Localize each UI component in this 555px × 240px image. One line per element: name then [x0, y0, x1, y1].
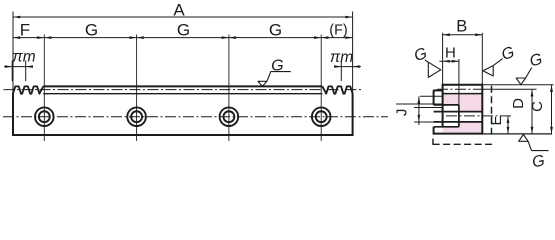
surface-flag G3 leader	[526, 68, 532, 79]
dimension H line	[439, 60, 459, 62]
wire rack-left-edge	[12, 93, 14, 136]
dimension pi-m-left line	[4, 66, 33, 68]
dimension J line	[418, 96, 420, 125]
wire body top edge	[442, 84, 483, 86]
surface-flag G1 leader	[425, 60, 429, 62]
svg-text:G: G	[271, 58, 283, 75]
svg-text:G: G	[177, 21, 190, 40]
dimension E line	[507, 116, 509, 134]
hole H2 bore	[131, 111, 142, 122]
hole H3 centreline	[228, 35, 230, 142]
svg-text:E: E	[488, 115, 505, 125]
svg-text:J: J	[393, 109, 410, 117]
wire counterbore step	[458, 105, 460, 127]
hole H2 centreline	[136, 35, 138, 142]
hole H3 bore	[223, 111, 234, 122]
wire counterbore top	[434, 104, 459, 106]
svg-text:A: A	[173, 0, 185, 19]
surface-flag G4 triangle	[519, 135, 528, 142]
hole H1 centreline	[43, 35, 45, 142]
wire rack-tip-line	[43, 85, 322, 87]
dimension A arrows	[13, 16, 20, 19]
dimension pi-m-left ext2	[25, 61, 27, 82]
svg-text:(F): (F)	[329, 23, 348, 39]
surface-flag G4 leader	[528, 141, 548, 150]
svg-text:G: G	[85, 21, 98, 40]
dimension B line	[443, 34, 483, 36]
wire rack-right-edge	[352, 93, 354, 136]
dimension B arrows	[443, 33, 450, 36]
svg-text:πm: πm	[330, 49, 353, 66]
hole H3 counterbore	[220, 107, 239, 126]
hole H4 centreline	[320, 35, 322, 142]
dimension J ext root	[420, 95, 443, 97]
wire tooth step top	[433, 89, 443, 91]
dimension pi-m-right ext	[340, 61, 342, 82]
wire rack-bottom	[13, 134, 353, 136]
dimension pi-m-right arrows	[334, 65, 341, 68]
phantom line below	[433, 143, 495, 145]
dimension J ext hole-bottom	[414, 121, 443, 123]
dimension D arrows	[531, 89, 534, 96]
wire through hole bottom	[434, 121, 483, 123]
wire rack-root-line	[43, 93, 322, 95]
dimension B ext left	[442, 33, 444, 85]
wire body left edge lower	[433, 127, 435, 135]
wire body left edge upper	[433, 90, 435, 105]
phantom line left tick	[432, 139, 434, 145]
dimension C line	[551, 85, 553, 134]
wire body right edge	[481, 84, 483, 135]
rack teeth right	[322, 86, 352, 93]
dimension J arrows	[418, 96, 421, 103]
dimension row arrows	[13, 36, 20, 39]
dimension row line	[13, 37, 353, 39]
dimension E arrows	[507, 116, 510, 123]
svg-text:C: C	[529, 101, 546, 112]
surface-flag G1 triangle	[428, 62, 441, 77]
wire tooth face vertical	[442, 85, 444, 127]
surface-flag G top leader	[267, 72, 291, 82]
wire root line right view	[443, 93, 483, 95]
dimension pi-m-left arrows	[5, 65, 12, 68]
wire body bottom edge	[434, 133, 483, 135]
extension top line right	[482, 84, 553, 86]
hole H4 bore	[316, 111, 327, 122]
dimension J ext cb-top	[396, 103, 443, 105]
dimension H arrows	[443, 60, 450, 63]
wire through hole top	[434, 111, 483, 113]
node pitch-line	[4, 89, 363, 91]
section fill lower	[443, 122, 483, 132]
hole H1 bore	[39, 111, 50, 122]
dimension pi-m-right line	[334, 66, 361, 68]
dimension A extension right	[352, 12, 354, 94]
phantom vertical right	[491, 86, 493, 137]
rack teeth left	[13, 86, 43, 93]
svg-text:πm: πm	[12, 49, 35, 66]
extension pitch line right	[481, 88, 537, 90]
dimension D line	[531, 89, 533, 134]
dimension H ext right	[458, 59, 460, 105]
svg-text:H: H	[445, 45, 456, 62]
node hole centre line right	[446, 115, 513, 117]
svg-text:D: D	[510, 98, 527, 109]
dimension C arrows	[550, 85, 553, 92]
dimension A line	[13, 16, 353, 18]
node pitch-line right view	[437, 88, 481, 90]
hole H1 counterbore	[35, 107, 54, 126]
surface-flag G2 triangle	[483, 66, 493, 76]
svg-text:G: G	[269, 21, 282, 40]
dimension J ext hole-top	[414, 107, 443, 109]
surface-flag G2 leader	[493, 59, 502, 66]
node hole-centre-line	[3, 116, 388, 118]
wire counterbore bottom	[434, 126, 459, 128]
dimension B ext right / edge extension	[481, 33, 483, 85]
surface-flag G top triangle	[258, 81, 267, 86]
hole H4 counterbore	[312, 107, 331, 126]
hole H2 counterbore	[127, 107, 146, 126]
svg-text:B: B	[456, 17, 467, 35]
dimension A extension left	[12, 12, 14, 94]
dimension pi-m-left ext1	[11, 61, 13, 82]
extension bottom line right	[482, 133, 552, 135]
surface-flag G3 triangle	[516, 78, 525, 85]
section fill upper	[443, 94, 483, 112]
svg-text:F: F	[20, 21, 30, 40]
